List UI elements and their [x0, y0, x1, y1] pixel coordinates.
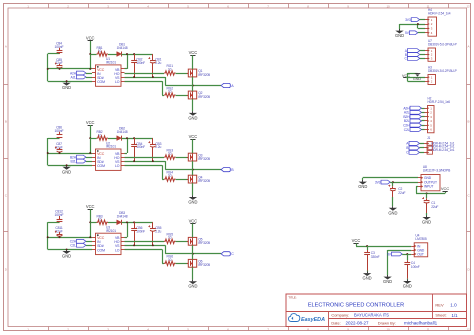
junction [366, 245, 368, 247]
svg-text:LM7805: LM7805 [415, 237, 426, 241]
net label B2L [404, 119, 422, 123]
capacitor C84 symbol [57, 48, 63, 54]
svg-text:OUT: OUT [417, 252, 424, 256]
wire [356, 246, 411, 248]
resistor RB2 symbol [97, 136, 109, 140]
wire [125, 68, 128, 70]
wire [392, 182, 394, 186]
resistor RG1 [166, 64, 173, 71]
junction [89, 68, 91, 70]
junction [417, 23, 419, 25]
capacitor CB1 symbol [148, 54, 156, 77]
capacitor C87 symbol [55, 147, 63, 153]
wire [407, 278, 409, 281]
wire [367, 271, 369, 272]
svg-text:DB301V-5.0-3P-BU-P: DB301V-5.0-3P-BU-P [428, 42, 457, 46]
junction [133, 137, 135, 139]
svg-text:GND: GND [62, 85, 71, 90]
resistor RG1 symbol [164, 71, 176, 75]
REV field [435, 302, 457, 307]
ground [62, 81, 71, 90]
junction [192, 85, 194, 87]
junction [47, 68, 49, 70]
frame column numbers top [27, 4, 470, 8]
wire [420, 19, 425, 21]
ground [413, 73, 422, 81]
wire [356, 243, 358, 246]
net flag C [221, 252, 234, 257]
junction [66, 80, 68, 82]
capacitor CB2 [136, 58, 145, 65]
junction [152, 244, 154, 246]
VCC power flag [352, 238, 361, 243]
svg-text:1N4148: 1N4148 [117, 130, 128, 134]
transistor Q6 symbol [187, 259, 197, 267]
svg-text:B2L: B2L [70, 159, 76, 163]
frame column numbers bottom [27, 327, 470, 331]
junction [133, 221, 135, 223]
capacitor C3 [371, 251, 380, 259]
wire [165, 77, 167, 86]
wire [422, 108, 425, 110]
net flag A [406, 142, 419, 146]
capacitor C812 symbol [57, 216, 63, 222]
svg-text:10: 10 [386, 4, 390, 8]
svg-text:LO: LO [115, 164, 120, 168]
junction [406, 253, 408, 255]
connector H2 HDR-F-2.54_1x6 [425, 97, 451, 133]
ground [403, 279, 412, 288]
svg-text:GND: GND [188, 115, 197, 120]
svg-text:michaelhanball1: michaelhanball1 [404, 321, 438, 326]
net flag A [221, 83, 234, 88]
svg-text:2.2u: 2.2u [155, 61, 161, 65]
wire [90, 54, 96, 56]
wire [162, 263, 164, 265]
svg-text:10: 10 [386, 327, 390, 331]
wire [416, 186, 418, 193]
wire [47, 138, 49, 165]
svg-text:100nF: 100nF [136, 145, 145, 149]
Company field [331, 313, 389, 318]
svg-text:IRF3205: IRF3205 [198, 241, 210, 245]
junction [152, 160, 154, 162]
svg-text:IRF3205: IRF3205 [198, 179, 210, 183]
wire [48, 68, 92, 70]
wire [86, 77, 92, 79]
resistor RB2 [96, 130, 102, 137]
wire [392, 197, 394, 206]
svg-text:GND: GND [422, 220, 431, 225]
svg-text:GND: GND [358, 184, 367, 189]
svg-text:VCC: VCC [86, 120, 95, 125]
junction [133, 244, 135, 246]
resistor RG4 [166, 170, 173, 177]
svg-text:VCC: VCC [189, 134, 198, 139]
wire [127, 138, 129, 153]
wire [420, 147, 425, 149]
capacitor C811 [55, 226, 63, 233]
capacitor CB2 symbol [131, 54, 137, 77]
wire [417, 24, 419, 28]
wire [176, 157, 189, 159]
frame row letters left [5, 45, 8, 272]
resistor RG5 symbol [164, 239, 176, 243]
ground [188, 280, 197, 289]
capacitor CB5 symbol [148, 222, 156, 245]
wire [416, 193, 445, 195]
wire [402, 254, 411, 256]
wire [125, 153, 128, 155]
wire [422, 112, 425, 114]
net label A2L [404, 110, 422, 114]
capacitor CB4 symbol [131, 138, 137, 161]
resistor RG6 symbol [164, 261, 176, 265]
svg-text:2.2u: 2.2u [155, 229, 161, 233]
junction [126, 221, 128, 223]
connector J1 HDR-M-2.54_1x1 x3 [424, 136, 455, 154]
ground [188, 195, 197, 204]
svg-text:12: 12 [466, 327, 470, 331]
transistor Q4 [198, 175, 210, 183]
transistor Q2 [198, 91, 210, 99]
frame row letters right [467, 45, 470, 272]
svg-text:REV: REV [435, 302, 444, 307]
net flag B [221, 168, 234, 173]
op-amp U2 IR2101 gate driver [92, 141, 125, 170]
svg-text:2022-08-27: 2022-08-27 [346, 321, 370, 326]
VCC power flag [402, 73, 410, 78]
svg-text:A2L: A2L [70, 75, 76, 79]
svg-text:INPUT: INPUT [424, 185, 433, 189]
junction [59, 152, 61, 154]
VCC power flag [441, 186, 450, 191]
svg-text:IR2101: IR2101 [106, 145, 116, 149]
svg-text:DB301V-5.0-2P-BU-P: DB301V-5.0-2P-BU-P [428, 69, 457, 73]
transistor Q5 symbol [187, 237, 197, 245]
svg-text:IRF3205: IRF3205 [198, 263, 210, 267]
capacitor CB5 [155, 226, 161, 233]
svg-text:C: C [231, 252, 234, 256]
Date field [331, 321, 369, 326]
wire [125, 237, 128, 239]
svg-text:COM: COM [97, 80, 105, 84]
resistor RG2 [166, 86, 173, 93]
resistor RG6 [166, 255, 173, 262]
wire [90, 138, 92, 153]
wire [176, 179, 189, 181]
wire [165, 85, 221, 87]
EasyEDA logo [289, 314, 326, 323]
svg-text:3V3: 3V3 [375, 180, 381, 184]
junction [47, 236, 49, 238]
wire [192, 170, 194, 176]
junction [392, 181, 394, 183]
connector H3 DB301V-5.0-2P-BU-P [425, 66, 457, 85]
svg-text:1N4148: 1N4148 [117, 46, 128, 50]
capacitor C2 [398, 187, 405, 195]
wire [192, 254, 194, 260]
wire [408, 81, 426, 83]
VCC power flag [189, 50, 198, 56]
wire [90, 54, 92, 69]
wire [125, 77, 166, 79]
ground [62, 165, 71, 174]
connector H4 HDR-F-2.54_1x4 [425, 8, 451, 36]
wire [125, 241, 165, 243]
wire [122, 222, 153, 224]
svg-text:GND: GND [188, 200, 197, 205]
junction [66, 248, 68, 250]
ground [422, 215, 431, 224]
svg-text:GND: GND [383, 279, 392, 284]
wire [362, 178, 364, 180]
junction [89, 137, 91, 139]
capacitor C2 symbol [388, 185, 396, 197]
wire [363, 177, 418, 179]
wire [86, 241, 92, 243]
regulator U4 LM7805 [411, 234, 428, 257]
net label A2H [403, 106, 421, 110]
transistor Q1 symbol [187, 69, 197, 77]
wire [422, 116, 425, 118]
transistor Q4 symbol [187, 175, 197, 183]
capacitor C812 [54, 210, 63, 218]
junction [126, 137, 128, 139]
wire [127, 54, 129, 69]
junction [192, 169, 194, 171]
wire [162, 165, 164, 179]
wire [422, 125, 425, 127]
svg-text:3V3: 3V3 [405, 18, 411, 22]
svg-text:LO: LO [115, 248, 120, 252]
wire [192, 55, 194, 69]
capacitor C4 symbol [404, 260, 410, 278]
svg-text:C2L: C2L [70, 244, 76, 248]
svg-text:Sheet:: Sheet: [435, 313, 446, 318]
svg-text:GND: GND [403, 284, 412, 289]
connector U7 DB301V-5.0-3P-BU-P [425, 39, 457, 61]
net label C2H [403, 123, 421, 127]
wire [125, 73, 165, 75]
svg-text:VCC: VCC [86, 36, 95, 41]
wire [192, 183, 194, 195]
net label B2L [70, 159, 85, 163]
transistor Q2 symbol [187, 91, 197, 99]
resistor RG5 [166, 233, 173, 240]
junction [66, 164, 68, 166]
transistor Q5 [198, 238, 210, 246]
svg-text:100nF: 100nF [411, 265, 420, 269]
svg-text:COM: COM [97, 164, 105, 168]
wire [420, 54, 425, 56]
wire [422, 120, 425, 122]
transistor Q3 [198, 153, 210, 161]
transistor Q1 [198, 69, 210, 77]
wire [176, 95, 189, 97]
svg-text:GND: GND [188, 284, 197, 289]
wire [122, 138, 153, 140]
svg-text:22uF: 22uF [398, 191, 405, 195]
wire [47, 54, 49, 81]
wire [125, 245, 166, 247]
svg-text:HDR-F-2.54_1x6: HDR-F-2.54_1x6 [428, 100, 451, 104]
VCC power flag [86, 36, 95, 41]
capacitor C1 symbol [422, 197, 430, 213]
frame row ticks right [467, 85, 471, 232]
wire [192, 267, 194, 279]
capacitor C85 symbol [55, 63, 63, 69]
wire [192, 245, 194, 254]
op-amp U1 IR2101 gate driver [92, 57, 125, 86]
capacitor C84 [54, 41, 63, 49]
svg-text:GND: GND [413, 77, 422, 81]
wire [418, 32, 425, 34]
diode DB2 symbol [117, 136, 122, 141]
resistor RB1 [96, 46, 102, 53]
wire [90, 209, 92, 222]
capacitor C87 [55, 142, 62, 149]
svg-text:B: B [468, 120, 470, 124]
wire [407, 254, 409, 260]
junction [59, 236, 61, 238]
wire [125, 157, 165, 159]
resistor RB1 symbol [97, 52, 109, 56]
svg-text:GND: GND [395, 33, 404, 38]
capacitor CB6 symbol [131, 222, 137, 245]
svg-text:100nF: 100nF [136, 61, 145, 65]
net label C2L [404, 128, 422, 132]
junction [59, 68, 61, 70]
svg-text:1N4148: 1N4148 [117, 214, 128, 218]
svg-text:GND: GND [388, 210, 397, 215]
wire [108, 222, 117, 224]
wire [48, 81, 92, 83]
net flag B [406, 146, 419, 150]
junction [89, 53, 91, 55]
wire [390, 182, 418, 184]
wire [162, 81, 164, 95]
resistor RB3 symbol [97, 220, 109, 224]
svg-text:VCC: VCC [189, 50, 198, 55]
svg-text:IR2101: IR2101 [106, 61, 116, 65]
ground [363, 272, 372, 281]
net label 3V3 [375, 180, 390, 184]
wire [192, 161, 194, 170]
svg-text:C2L: C2L [404, 128, 410, 132]
wire [108, 138, 117, 140]
svg-text:VCC: VCC [441, 186, 450, 191]
frame column ticks top [49, 4, 449, 9]
resistor RG4 symbol [164, 177, 176, 181]
svg-text:22uF: 22uF [431, 205, 438, 209]
wire [387, 250, 389, 275]
wire [48, 53, 60, 55]
VCC power flag [189, 134, 198, 139]
svg-text:VCC: VCC [86, 204, 95, 209]
capacitor C86 [54, 125, 63, 133]
diode DB1 [117, 43, 128, 50]
diode DB1 symbol [117, 52, 122, 57]
svg-text:GND: GND [62, 169, 71, 174]
wire [192, 139, 194, 153]
svg-text:Date:: Date: [331, 321, 340, 326]
regulator U8 LM1117F-3.3/NOPB [418, 165, 451, 191]
wire [90, 125, 92, 138]
svg-text:1.0: 1.0 [450, 303, 457, 308]
wire [165, 245, 167, 254]
wire [176, 263, 189, 265]
resistor RG3 [166, 148, 173, 155]
frame column ticks bottom [49, 327, 449, 331]
wire [165, 169, 221, 171]
svg-text:BAYUCARAKA ITS: BAYUCARAKA ITS [354, 313, 389, 318]
diode DB3 [117, 211, 128, 218]
svg-text:11: 11 [427, 327, 430, 331]
wire [406, 77, 425, 79]
svg-text:GND: GND [363, 276, 372, 281]
wire [86, 73, 92, 75]
svg-text:VCC: VCC [189, 218, 198, 223]
capacitor CB6 [136, 226, 145, 233]
junction [192, 253, 194, 255]
wire [192, 99, 194, 111]
wire [176, 241, 189, 243]
diode DB3 symbol [117, 220, 122, 225]
junction [133, 160, 135, 162]
wire [90, 222, 96, 224]
svg-text:IRF3205: IRF3205 [198, 73, 210, 77]
wire [192, 224, 194, 238]
wire [420, 50, 425, 52]
ground [188, 111, 197, 120]
wire [86, 161, 92, 163]
svg-text:ELECTRONIC SPEED CONTROLLER: ELECTRONIC SPEED CONTROLLER [308, 303, 404, 309]
svg-text:A: A [468, 45, 470, 49]
wire [422, 129, 425, 131]
wire [420, 143, 425, 145]
svg-text:EasyEDA: EasyEDA [301, 317, 325, 323]
wire [418, 28, 425, 30]
net label B2H [70, 155, 86, 159]
svg-text:LO: LO [115, 80, 120, 84]
svg-text:HDR-F-2.54_1x4: HDR-F-2.54_1x4 [428, 11, 451, 15]
svg-text:HDR-M-2.54_1x1: HDR-M-2.54_1x1 [431, 148, 454, 152]
wire [90, 138, 96, 140]
wire [48, 249, 92, 251]
capacitor C1 [431, 201, 438, 209]
wire [192, 86, 194, 92]
ground [358, 180, 367, 189]
wire [90, 41, 92, 54]
junction [426, 192, 428, 194]
wire [86, 157, 92, 159]
frame row ticks left [4, 85, 9, 232]
net label C2L [70, 243, 86, 247]
svg-text:GND: GND [62, 254, 71, 259]
wire [165, 253, 221, 255]
net label 3V3 [405, 18, 420, 22]
net label A2L [70, 75, 85, 79]
transistor Q6 [198, 260, 210, 268]
transistor Q3 symbol [187, 153, 197, 161]
junction [89, 152, 91, 154]
wire [90, 222, 92, 237]
capacitor C3 symbol [364, 250, 370, 271]
Sheet field [435, 313, 458, 318]
capacitor C86 symbol [57, 132, 63, 138]
svg-text:Company:: Company: [331, 313, 349, 318]
